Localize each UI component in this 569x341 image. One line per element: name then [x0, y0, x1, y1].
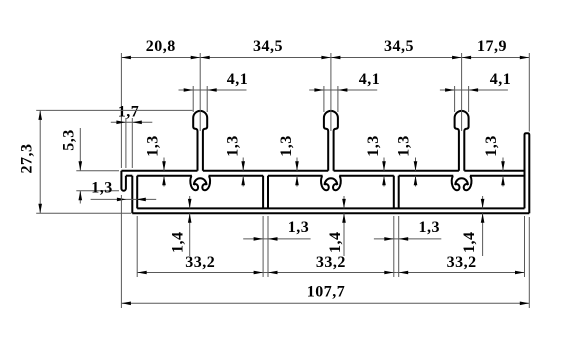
svg-text:1,3: 1,3	[225, 135, 242, 157]
svg-text:1,3: 1,3	[365, 135, 382, 157]
chamber 1 left wall outer face	[131, 176, 133, 214]
divider wall 1 right face	[267, 176, 269, 209]
svg-text:17,9: 17,9	[477, 38, 507, 55]
snap stem with bulb head 2	[324, 111, 338, 171]
dimension 1,3 divider wall thickness 2	[374, 219, 441, 241]
svg-text:1,3: 1,3	[396, 135, 413, 157]
svg-text:1,4: 1,4	[327, 232, 344, 254]
snap stem with bulb head 1	[193, 111, 207, 171]
wire flange top surface center-left segment	[203, 170, 328, 172]
svg-text:33,2: 33,2	[185, 254, 215, 271]
dimension 1,3 flange thickness callout 1	[145, 135, 166, 186]
wire flange top surface left segment	[121, 170, 197, 172]
svg-text:1,3: 1,3	[288, 219, 310, 236]
dimension 1,3 flange thickness callout 3	[278, 135, 299, 186]
svg-text:20,8: 20,8	[146, 38, 176, 55]
svg-text:1,4: 1,4	[461, 232, 478, 254]
svg-text:1,3: 1,3	[278, 135, 295, 157]
dimension 4,1 bulb width stem 1	[179, 71, 249, 112]
dimension 1,3 flange thickness callout 6	[483, 135, 505, 186]
wire flange top surface right segment	[464, 170, 524, 172]
dimension 1,3 divider wall thickness 1	[243, 219, 310, 241]
dimension 1,3 flange thickness callout 5	[396, 135, 418, 186]
dimension 1,4 bottom wall thickness chamber 1	[170, 196, 192, 256]
svg-text:33,2: 33,2	[316, 254, 346, 271]
dimension 1,3 flange thickness callout 4	[365, 135, 386, 186]
svg-text:1,7: 1,7	[118, 104, 140, 121]
divider wall 2 left face	[393, 176, 395, 209]
dimension 27,3 overall height	[19, 110, 193, 213]
wire flange bottom surface chamber2 left segment	[268, 175, 323, 177]
wire flange bottom surface chamber3 right segment	[470, 175, 525, 177]
dimension 1,4 bottom wall thickness chamber 3	[461, 196, 485, 256]
svg-text:4,1: 4,1	[227, 71, 249, 88]
svg-text:5,3: 5,3	[60, 129, 77, 151]
wire bottom wall inner surface	[137, 207, 524, 209]
svg-text:34,5: 34,5	[253, 38, 283, 55]
wire flange top surface center-right segment	[334, 170, 459, 172]
right lip wall	[525, 133, 530, 213]
svg-text:1,4: 1,4	[170, 232, 187, 254]
snap stem with bulb head 3	[455, 111, 469, 171]
wire flange bottom surface chamber3 left segment	[399, 175, 454, 177]
svg-text:1,3: 1,3	[91, 180, 113, 197]
wire flange bottom surface chamber2 right segment	[339, 175, 394, 177]
dimension 1,4 bottom wall thickness chamber 2	[327, 196, 346, 256]
dimension 1,3 flange thickness callout 2	[225, 135, 246, 186]
divider wall 1 left face	[262, 176, 264, 209]
screw port omega 1	[190, 176, 210, 190]
svg-text:1,3: 1,3	[419, 219, 441, 236]
dimension 34,5 top chain segment 1	[200, 38, 331, 131]
dimension 33,2 chamber 1 width	[137, 216, 265, 277]
svg-text:4,1: 4,1	[359, 71, 381, 88]
dimension 33,2 chamber 3 width	[396, 216, 524, 277]
wire flange bottom surface chamber1 left segment	[137, 175, 192, 177]
dimension 34,5 top chain segment 2	[331, 38, 462, 131]
svg-text:34,5: 34,5	[384, 38, 414, 55]
dimension 4,1 bulb width stem 2	[309, 71, 380, 112]
chamber 1 left wall inner face	[136, 176, 138, 209]
wire flange bottom surface lip stub segment	[126, 175, 132, 177]
dimension 107,7 overall width	[121, 195, 529, 308]
divider wall 2 right face	[398, 176, 400, 209]
svg-text:1,3: 1,3	[145, 135, 162, 157]
dimension 33,2 chamber 2 width	[266, 216, 397, 277]
dimension 5,3 lip height	[60, 128, 119, 204]
screw port omega 3	[452, 176, 472, 190]
svg-text:4,1: 4,1	[490, 71, 512, 88]
svg-text:107,7: 107,7	[307, 284, 346, 301]
dimension 1,3 lip wall thickness	[91, 180, 157, 202]
svg-text:33,2: 33,2	[447, 254, 477, 271]
wire bottom wall outer surface	[132, 212, 529, 214]
left lip wall	[121, 171, 126, 191]
wire flange bottom surface chamber1 right segment	[209, 175, 264, 177]
dimension 17,9 top chain segment	[462, 38, 530, 132]
screw port omega 2	[321, 176, 341, 190]
dimension 20,8 top chain segment	[121, 38, 200, 168]
svg-text:27,3: 27,3	[19, 144, 36, 174]
svg-text:1,3: 1,3	[483, 135, 500, 157]
dimension 1,7 lip to wall gap	[111, 104, 153, 169]
dimension 4,1 bulb width stem 3	[440, 71, 511, 112]
